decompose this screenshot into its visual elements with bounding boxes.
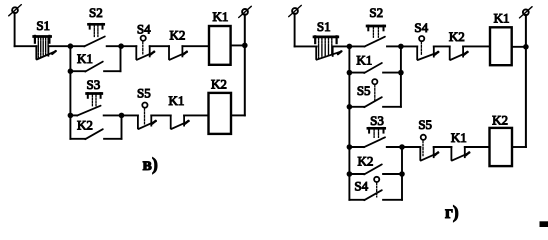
svg-text:K2: K2 bbox=[211, 77, 227, 92]
relay coil K2 bbox=[209, 93, 232, 134]
svg-text:K1: K1 bbox=[212, 9, 228, 24]
wire K1 contact to coil K2 (г) bbox=[465, 146, 490, 148]
wire K1 hold up to node B bbox=[120, 46, 122, 71]
svg-text:K1: K1 bbox=[77, 51, 93, 66]
contact K2 (break) (г) bbox=[450, 46, 468, 60]
svg-text:K1: K1 bbox=[451, 130, 467, 145]
wire K1 contact to coil K2 bbox=[184, 114, 208, 116]
terminal X2 (right supply, circuit г) bbox=[520, 7, 533, 18]
label S1 (г) bbox=[317, 19, 331, 34]
node A2 (K1 hold branch) (г) bbox=[347, 70, 353, 76]
node C (lower branch tap) (г) bbox=[347, 144, 353, 150]
label K1 (coil) bbox=[212, 9, 228, 24]
svg-text:K2: K2 bbox=[169, 28, 185, 43]
svg-text:K1: K1 bbox=[356, 52, 372, 67]
svg-text:S5: S5 bbox=[137, 86, 151, 101]
contact S5 (break) bbox=[138, 115, 156, 129]
svg-text:S1: S1 bbox=[36, 18, 50, 33]
wire from terminal X1 down bbox=[14, 13, 16, 46]
right lower vertical (г) bbox=[401, 147, 403, 200]
label K1 (break contact) (г) bbox=[451, 130, 467, 145]
pushbutton S2 (make contact) (г) bbox=[364, 26, 385, 47]
pushbutton S2 (make contact) bbox=[84, 24, 105, 47]
label S2 bbox=[89, 5, 103, 20]
label K2 (coil) (г) bbox=[492, 113, 508, 128]
switch S4 actuator (г) bbox=[419, 36, 424, 55]
label K1 (make contact) bbox=[77, 51, 93, 66]
contact K2 (make, holding) (г) bbox=[349, 164, 402, 174]
wire node D to S5 contact (г) bbox=[402, 146, 420, 148]
svg-text:K2: K2 bbox=[492, 113, 508, 128]
svg-text:K1: K1 bbox=[168, 93, 184, 108]
contact K1 (break) bbox=[171, 115, 189, 129]
wire node A to S2 (г) bbox=[349, 45, 364, 47]
label S4 (make contact) (г) bbox=[354, 178, 368, 193]
svg-text:S5: S5 bbox=[418, 117, 432, 132]
svg-text:в): в) bbox=[143, 154, 158, 174]
wire S4 to K2 contact bbox=[150, 45, 169, 47]
node on right lower vertical (г) bbox=[399, 171, 405, 177]
left vertical wire node A down bbox=[69, 46, 71, 115]
svg-text:S2: S2 bbox=[369, 5, 383, 20]
node right-rail junction (г) bbox=[523, 44, 529, 50]
svg-text:K1: K1 bbox=[494, 11, 510, 26]
wire K2 hold up to node D bbox=[121, 115, 123, 138]
pushbutton S3 (make contact) (г) bbox=[364, 128, 385, 147]
wire node C to S3 (г) bbox=[349, 146, 364, 148]
contact S4 (make, holding) (г) bbox=[349, 190, 402, 200]
contact K2 (make, holding) bbox=[70, 129, 121, 139]
label K2 (break contact) bbox=[169, 28, 185, 43]
wire node B to S4 (г) bbox=[401, 45, 417, 47]
svg-text:г): г) bbox=[445, 202, 459, 222]
svg-text:S1: S1 bbox=[317, 19, 331, 34]
wire K2 contact to coil K1 (г) bbox=[463, 45, 490, 47]
label S3 (г) bbox=[370, 113, 384, 128]
label S2 (г) bbox=[369, 5, 383, 20]
label K2 (break contact) (г) bbox=[449, 29, 465, 44]
node B junction (г) bbox=[398, 44, 404, 50]
label S3 bbox=[87, 77, 101, 92]
label K1 (break contact) bbox=[168, 93, 184, 108]
contact K2 (break) bbox=[169, 46, 187, 60]
label S1 bbox=[36, 18, 50, 33]
terminal X1 (left supply, circuit в) bbox=[9, 5, 22, 16]
contact S4 (break) bbox=[136, 46, 154, 60]
terminal X1 (left supply, circuit г) bbox=[289, 5, 302, 16]
node A2 (K1 hold branch) bbox=[68, 68, 74, 74]
wire K2 contact to coil K1 bbox=[182, 45, 209, 47]
terminal X2 (right supply, circuit в) bbox=[239, 6, 252, 17]
label S4 bbox=[137, 21, 151, 36]
label K2 (make contact) bbox=[77, 118, 93, 133]
wire S5 to K1 contact (г) bbox=[434, 146, 452, 148]
node on right holding vertical (г) bbox=[398, 70, 404, 76]
svg-text:S4: S4 bbox=[137, 21, 151, 36]
svg-text:S5: S5 bbox=[357, 83, 371, 98]
wire S2 to node B bbox=[107, 45, 121, 47]
wire top rail to S1 (г) bbox=[295, 45, 317, 47]
wire S2 to node B (г) bbox=[387, 45, 401, 47]
svg-text:S4: S4 bbox=[354, 178, 368, 193]
switch S5 actuator bbox=[142, 103, 147, 124]
wire S3 to node D bbox=[104, 114, 122, 116]
svg-text:S3: S3 bbox=[370, 113, 384, 128]
pushbutton S1 (break contact, hatched plunger) bbox=[34, 36, 56, 60]
node D junction (г) bbox=[399, 144, 405, 150]
label S5 bbox=[137, 86, 151, 101]
wire node D to S5 bbox=[122, 114, 138, 116]
svg-text:S3: S3 bbox=[87, 77, 101, 92]
wire node C to S3 bbox=[70, 114, 77, 116]
left vertical to K2 hold row (г) bbox=[347, 171, 353, 177]
left vertical wire node A down (г) bbox=[348, 46, 350, 199]
contact K1 (make, holding) bbox=[70, 62, 120, 72]
contact S4 (break) (г) bbox=[417, 46, 438, 60]
wire node B to S4 bbox=[121, 45, 136, 47]
label K2 (coil) bbox=[211, 77, 227, 92]
wire coil K2 to right rail (г) bbox=[512, 146, 526, 148]
svg-text:S4: S4 bbox=[414, 20, 428, 35]
label K1 (coil) (г) bbox=[494, 11, 510, 26]
pushbutton S1 (break contact, hatched plunger) (г) bbox=[314, 36, 342, 59]
wire S1 to node A (г) bbox=[333, 45, 350, 47]
contact S5 (make, holding) (г) bbox=[349, 97, 401, 107]
node A junction (г) bbox=[347, 44, 353, 50]
right holding vertical up to node B (г) bbox=[400, 46, 402, 106]
relay coil K1 bbox=[209, 26, 231, 65]
caption г) bbox=[445, 202, 459, 222]
label S5 (make contact) (г) bbox=[357, 83, 371, 98]
node C (lower branch tap) bbox=[68, 113, 74, 119]
right rail wire bbox=[244, 15, 246, 116]
wire top rail to S1 bbox=[15, 45, 37, 47]
caption в) bbox=[143, 154, 158, 174]
wire node A to S2 bbox=[70, 45, 84, 47]
left vertical to K2 hold row bbox=[69, 115, 71, 138]
relay coil K1 (г) bbox=[490, 27, 512, 65]
pushbutton S3 (make contact) bbox=[77, 93, 102, 116]
svg-text:K2: K2 bbox=[358, 153, 374, 168]
wire coil K1 to right rail (г) bbox=[512, 46, 526, 48]
wire S3 to node D (г) bbox=[387, 146, 402, 148]
node A junction bbox=[68, 43, 74, 49]
right rail wire (г) bbox=[525, 15, 527, 147]
wire S5 to K1 contact bbox=[151, 114, 170, 116]
contact S5 (break) (г) bbox=[420, 147, 438, 161]
contact K1 (break) (г) bbox=[451, 147, 469, 161]
wire coil K1 to right rail bbox=[231, 44, 245, 46]
label K1 (make contact) (г) bbox=[356, 52, 372, 67]
label S4 (г) bbox=[414, 20, 428, 35]
wire S1 to node A bbox=[48, 45, 70, 47]
node B junction bbox=[118, 43, 124, 49]
switch S5 actuator (г) bbox=[421, 135, 426, 156]
node D junction bbox=[119, 113, 125, 119]
node right-rail junction bbox=[242, 43, 248, 49]
switch S4 hold actuator (г) bbox=[374, 177, 379, 197]
wire S4 to K2 contact (г) bbox=[434, 45, 450, 47]
label S5 (break contact) (г) bbox=[418, 117, 432, 132]
svg-text:K2: K2 bbox=[77, 118, 93, 133]
wire from terminal X1 down (г) bbox=[294, 14, 296, 47]
node A3 (S5 hold branch) (г) bbox=[347, 104, 353, 110]
switch S5 hold actuator (г) bbox=[372, 79, 377, 101]
relay coil K2 (г) bbox=[490, 128, 513, 166]
svg-text:K2: K2 bbox=[449, 29, 465, 44]
wire coil K2 to right rail bbox=[231, 114, 245, 116]
switch S4 actuator bbox=[141, 36, 146, 55]
svg-text:S2: S2 bbox=[89, 5, 103, 20]
label K2 (make contact) (г) bbox=[358, 153, 374, 168]
page corner mark bbox=[540, 221, 548, 227]
contact K1 (make, holding) (г) bbox=[349, 63, 401, 73]
